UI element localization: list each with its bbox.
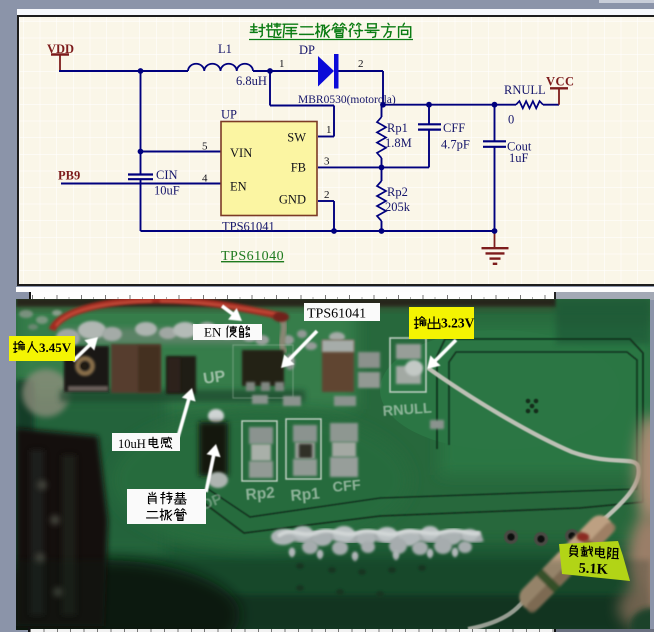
svg-text:10uH: 10uH [118,437,146,451]
svg-text:3.45V: 3.45V [39,340,72,355]
svg-text:EN: EN [204,324,222,339]
svg-text:3.23V: 3.23V [441,316,475,331]
svg-text:TPS61041: TPS61041 [307,307,366,322]
svg-text:5.1K: 5.1K [578,560,609,578]
